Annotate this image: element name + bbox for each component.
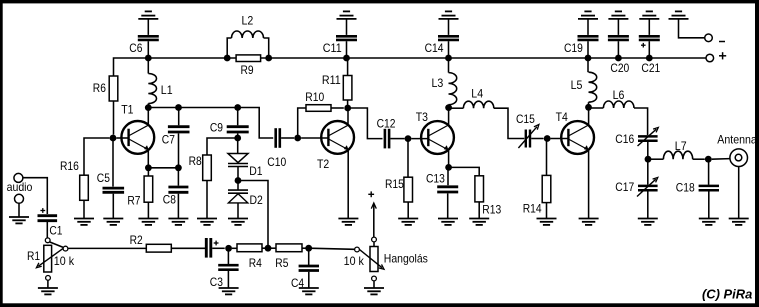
node C4/R5 junction (305, 245, 312, 252)
wire emitter node to R13 (449, 167, 480, 175)
ground under R7 (138, 218, 158, 220)
wire R16 to ground (83, 200, 85, 218)
wire to antenna connector (712, 158, 730, 161)
wire audio shield to ground (18, 203, 20, 217)
node L2/R9 right junction (265, 55, 272, 62)
ground under C5 (103, 218, 123, 220)
wire C10 to T2 base node (281, 137, 294, 139)
resistor R4 (237, 244, 262, 270)
node L7/C18 junction (705, 156, 712, 163)
wire D2 to ground (237, 203, 239, 219)
capacitor C2 (electrolytic) (206, 238, 218, 258)
svg-text:R15: R15 (385, 178, 404, 191)
inductor L5 (571, 58, 597, 107)
wire T1 collector riser (147, 108, 149, 125)
node T1 base junction (110, 135, 117, 142)
node C6/bus junction (145, 55, 152, 62)
wire C4 node to tuning pot (309, 248, 355, 249)
capacitor C8 (163, 168, 189, 207)
svg-text:R13: R13 (482, 203, 501, 216)
ground under D2 (228, 218, 248, 220)
resistor R16 (60, 160, 88, 200)
transistor T3 (416, 111, 454, 154)
svg-text:C13: C13 (426, 172, 445, 185)
capacitor C4 (291, 248, 319, 290)
svg-text:C18: C18 (676, 181, 695, 194)
resistor R8 (189, 155, 212, 181)
wire collector node to C12 (348, 108, 383, 139)
ground above C20 (608, 11, 628, 35)
node T4 collector junction (585, 104, 592, 111)
node T1 emitter junction (145, 164, 152, 171)
resistor R11 (322, 74, 352, 100)
wire R8 to ground (206, 181, 208, 219)
wire T3 collector riser (448, 108, 450, 125)
svg-text:C12: C12 (377, 118, 396, 131)
svg-text:R16: R16 (60, 160, 79, 173)
resistor R10 (305, 91, 331, 111)
wire R10 to collector node (331, 107, 344, 109)
capacitor C3 (210, 248, 239, 289)
svg-text:10 k: 10 k (54, 255, 74, 268)
wire R13 to ground (478, 202, 480, 219)
svg-text:R9: R9 (241, 64, 254, 77)
resistor R14 (523, 175, 551, 215)
svg-text:C17: C17 (615, 181, 634, 194)
trimmer capacitor C17 (615, 159, 658, 196)
capacitor C19 (564, 36, 599, 58)
ground under R15 (398, 218, 418, 220)
node L1/T1 collector junction (145, 104, 152, 111)
svg-text:R1: R1 (27, 250, 40, 263)
svg-text:C6: C6 (129, 42, 142, 55)
wire C2 to C3 node (212, 247, 225, 249)
resistor R13 (475, 176, 501, 217)
transistor T4 (556, 111, 594, 154)
wire R15 to ground (407, 202, 409, 219)
wire base node to T1 base (116, 137, 128, 139)
capacitor C11 (323, 36, 357, 58)
wire R1 to ground (47, 281, 49, 288)
wire R11 top (347, 58, 349, 76)
ground under C4 (299, 287, 319, 289)
wire D1 to tuning node (237, 167, 239, 181)
wire T2 emitter to ground (347, 151, 349, 219)
svg-text:T2: T2 (317, 158, 329, 171)
resistor R2 (130, 234, 172, 252)
ground above C19 (578, 11, 598, 35)
trimmer capacitor C16 (615, 127, 658, 146)
wire T3 base (411, 138, 428, 140)
capacitor C21 (electrolytic, polarity +) (639, 36, 661, 75)
antenna connector (717, 134, 757, 167)
ground under R8 (197, 218, 217, 220)
svg-text:C10: C10 (267, 156, 286, 169)
node L2/R9 left junction (224, 55, 231, 62)
node C16/C17/L7 junction (645, 156, 652, 163)
capacitor C6 (129, 36, 159, 58)
svg-text:C20: C20 (610, 62, 629, 75)
wire T4 collector riser (588, 107, 590, 124)
wire antenna shell to ground (738, 167, 740, 219)
inductor L6 (603, 89, 634, 108)
capacitor C14 (425, 36, 459, 58)
ground above C11 (337, 11, 357, 35)
capacitor C20 (608, 36, 629, 75)
transistor T2 (317, 121, 354, 171)
wire tank bus (148, 108, 273, 139)
inductor L7 (648, 140, 705, 159)
inductor L1 (148, 58, 172, 108)
potentiometer Hangolas 10k (344, 242, 428, 271)
node C20/bus junction (615, 55, 622, 62)
node C19/bus junction (585, 55, 592, 62)
node T3 emitter junction (445, 164, 452, 171)
svg-text:T3: T3 (416, 111, 428, 124)
wire R2 to C2 (171, 247, 205, 249)
potentiometer R1 10k (27, 245, 74, 272)
ground under C18 (699, 218, 719, 220)
node C9/bus junction (234, 104, 241, 111)
terminal R1 wiper (63, 246, 68, 251)
svg-text:R10: R10 (305, 91, 324, 104)
ground above C21 (639, 11, 659, 35)
ground under R13 (469, 218, 489, 220)
transistor T1 (121, 104, 154, 154)
svg-text:C16: C16 (615, 133, 634, 146)
node D1/D2 junction (235, 177, 242, 184)
wire T4 base (551, 138, 569, 140)
wire R6 bottom to base node (113, 101, 115, 135)
wire R14 top (546, 139, 548, 176)
node T4 base junction (544, 135, 551, 142)
wire C15 to T4 base node (531, 138, 543, 140)
wire T4 emitter to ground (588, 151, 590, 219)
svg-text:C1: C1 (49, 225, 62, 238)
svg-text:C14: C14 (425, 42, 444, 55)
wire C9 bottom node to R8 (207, 138, 238, 155)
wire wiper to R2 (68, 247, 146, 249)
resistor R7 (127, 176, 152, 208)
wire R15 top (407, 139, 409, 178)
ground under antenna (729, 218, 749, 220)
wire L4 to C15 (494, 108, 525, 138)
svg-text:C5: C5 (97, 172, 110, 185)
wire tuning pot to ground (373, 281, 375, 288)
capacitor C18 (676, 159, 719, 194)
svg-text:R6: R6 (93, 82, 106, 95)
ground under tuning pot (364, 287, 384, 289)
svg-text:L3: L3 (432, 77, 444, 90)
svg-text:L1: L1 (161, 84, 173, 97)
node T2 collector junction (344, 105, 351, 112)
ground under T4 emitter (579, 218, 599, 220)
capacitor C12 (377, 118, 396, 149)
ground under audio jack (9, 216, 29, 218)
svg-text:L5: L5 (571, 79, 583, 92)
audio input terminal top (14, 173, 23, 182)
ground under C17 (638, 218, 658, 220)
wire T1 emitter riser (147, 151, 149, 168)
svg-text:(C) PiRa: (C) PiRa (702, 286, 752, 301)
node C9 bottom junction (234, 135, 241, 142)
wire R4 stubs (232, 247, 237, 249)
node C14/bus junction (445, 55, 452, 62)
wire C5 to ground (112, 194, 114, 219)
terminal R1 bottom (46, 276, 51, 281)
ground under R1 (38, 287, 58, 289)
wire base node to R16 (84, 138, 110, 175)
wire T2 collector riser (347, 108, 349, 124)
svg-text:R2: R2 (130, 234, 143, 247)
svg-text:L4: L4 (471, 88, 483, 101)
terminal tuning wiper (355, 247, 360, 252)
svg-text:T4: T4 (556, 111, 569, 124)
svg-text:R11: R11 (322, 74, 341, 87)
inductor L3 (432, 58, 457, 105)
terminal tuning pot bottom (372, 276, 377, 281)
svg-text:audio: audio (7, 181, 33, 194)
ground under T2 emitter (338, 218, 358, 220)
svg-text:Hangolás: Hangolás (384, 253, 428, 266)
svg-text:10 k: 10 k (344, 255, 364, 268)
capacitor C10 (267, 128, 286, 169)
wire T3 emitter riser (448, 151, 450, 168)
wire C18 to ground (708, 191, 710, 218)
node T3 base junction (405, 135, 412, 142)
svg-text:R4: R4 (249, 257, 263, 270)
node C21/bus junction (646, 55, 653, 62)
wire C3 to ground (227, 271, 229, 288)
capacitor C9 (210, 108, 249, 135)
varicap diode D1 (228, 154, 263, 178)
wire L6 to C16 (634, 108, 648, 135)
wire R7 to ground (147, 202, 149, 218)
ground under R14 (537, 218, 557, 220)
resistor R9 (236, 55, 261, 77)
wire collector node to L4 (449, 107, 464, 109)
ground under R16 (74, 218, 94, 220)
terminal R1 top (45, 238, 50, 243)
wire R5 to C4 node (302, 247, 309, 249)
svg-text:C15: C15 (516, 113, 535, 126)
inductor L2 (227, 15, 269, 59)
minus supply terminal (705, 34, 725, 42)
svg-text:C21: C21 (641, 62, 660, 75)
svg-text:L7: L7 (675, 140, 687, 153)
ground under C13 (438, 218, 458, 220)
wire C16 bottom (647, 142, 649, 159)
svg-text:T1: T1 (121, 104, 133, 117)
capacitor C7 (162, 108, 190, 147)
terminal tuning pot top (372, 237, 377, 242)
svg-text:R14: R14 (523, 202, 542, 215)
wire C4 to ground (308, 272, 310, 288)
svg-text:C7: C7 (162, 133, 175, 146)
svg-text:L2: L2 (242, 15, 254, 28)
svg-text:R7: R7 (127, 195, 140, 208)
wire T2 base (301, 137, 329, 139)
resistor R15 (385, 177, 413, 202)
node C11/bus junction (343, 55, 350, 62)
wire collector node to L6 (589, 107, 604, 109)
capacitor C1 (electrolytic) (38, 208, 63, 238)
node C7/bus junction (175, 104, 182, 111)
varicap diode D2 (228, 181, 263, 207)
svg-text:D2: D2 (250, 194, 263, 207)
plus supply terminal (706, 52, 726, 62)
wire C9 bottom node to D1 (237, 133, 239, 153)
ground for minus terminal (669, 11, 705, 37)
ground above C14 (439, 11, 459, 35)
resistor R5 (275, 244, 302, 270)
svg-text:Antenna: Antenna (717, 134, 757, 147)
wire R4-R5 (262, 247, 276, 249)
wire base node to C5 (112, 138, 114, 187)
svg-text:C19: C19 (564, 42, 583, 55)
wire C12 to T3 base node (390, 138, 404, 140)
node T2 base junction (294, 135, 301, 142)
wire C8 to ground (177, 194, 179, 219)
inductor L4 (463, 88, 493, 109)
wire R10 feedback riser (298, 108, 306, 138)
audio input terminal bottom (7, 181, 33, 203)
plus supply arrow for tuning pot (368, 191, 376, 240)
resistor R6 (93, 76, 118, 101)
wire R14 to ground (546, 203, 548, 219)
svg-text:D1: D1 (249, 165, 262, 178)
ground above C6 (138, 11, 158, 35)
svg-text:C9: C9 (210, 122, 223, 135)
wire audio to C1 (23, 178, 47, 214)
wire C13 to ground (447, 193, 449, 218)
svg-text:C11: C11 (323, 42, 342, 55)
svg-text:L6: L6 (613, 89, 625, 102)
wire emitter node to C8 node (148, 167, 178, 169)
svg-text:R5: R5 (275, 257, 288, 270)
node C7/C8 junction (175, 164, 182, 171)
wire R1 wiper link (50, 242, 63, 247)
wire C7 bottom to emitter node (178, 133, 180, 167)
capacitor C5 (97, 172, 124, 193)
node C3/R4 junction (225, 245, 232, 252)
node R4/R5 junction (varicap feed) (265, 245, 272, 252)
wire R7 top (147, 168, 149, 176)
wire C1 to R1 (46, 222, 48, 238)
wire V+ bus (114, 58, 707, 76)
ground under C3 (219, 287, 239, 289)
wire C17 to ground (647, 191, 649, 218)
capacitor C13 (426, 167, 458, 192)
wire R11 bottom (347, 100, 349, 108)
trimmer capacitor C15 (516, 113, 539, 148)
svg-text:C8: C8 (163, 193, 176, 206)
wire tuning node to R4/R5 node (238, 181, 268, 249)
svg-text:R8: R8 (189, 155, 202, 168)
node T3 collector junction (445, 104, 452, 111)
ground under C8 (168, 218, 188, 220)
